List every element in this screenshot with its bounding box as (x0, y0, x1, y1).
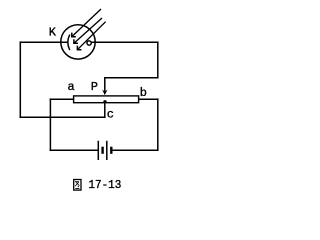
caption character 图 (74, 180, 81, 191)
anode dot (87, 41, 91, 45)
wire: anode lead (right) (91, 41, 158, 43)
battery cell 2 short plate (110, 147, 112, 154)
wire: left battery branch (49, 99, 51, 150)
wire: c riser (104, 103, 106, 117)
junction c dot (103, 100, 106, 103)
wire: battery left lead (50, 149, 98, 151)
light ray 2 arrowhead (74, 40, 77, 43)
light ray 1 arrowhead (72, 33, 75, 36)
svg-text:c: c (107, 107, 114, 121)
wire: b lead (139, 98, 158, 100)
battery cell 1 short plate (101, 147, 103, 154)
battery cell 1 long plate (97, 141, 99, 160)
photocell tube K envelope (61, 25, 95, 59)
svg-text:P: P (91, 80, 98, 94)
cathode K arc (68, 35, 70, 49)
wire: left vertical (19, 42, 21, 117)
battery cell 2 long plate (106, 141, 108, 160)
svg-text:b: b (140, 86, 147, 100)
wire: bottom horizontal from left loop to c (20, 116, 105, 118)
wire: right vertical down to slider feed (105, 42, 158, 91)
light ray 2 shaft (74, 18, 102, 43)
potentiometer body a-b (74, 96, 139, 103)
wire: a lead (50, 98, 73, 100)
slider P arrow (102, 90, 107, 96)
svg-text:a: a (68, 80, 75, 94)
light ray 3 shaft (77, 22, 105, 50)
wire: right battery branch (157, 99, 159, 150)
svg-text:K: K (49, 25, 57, 39)
wire: cathode lead (left) (20, 41, 67, 43)
wire: battery right lead (113, 149, 158, 151)
svg-text:17-13: 17-13 (88, 178, 121, 192)
light ray 3 arrowhead (77, 46, 80, 49)
light ray 1 shaft (72, 9, 101, 37)
